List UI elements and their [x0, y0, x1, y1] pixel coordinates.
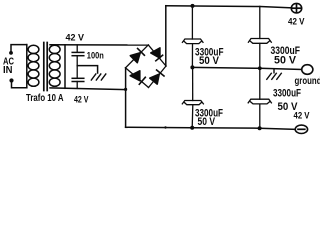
- svg-text:100n: 100n: [87, 51, 104, 62]
- capacitor C1 100n (upper): [72, 45, 84, 78]
- diode D3 (lower-left arm): [130, 71, 145, 85]
- svg-text:Trafo 10 A: Trafo 10 A: [26, 93, 64, 104]
- transformer T1 primary winding: [27, 45, 39, 88]
- node bottom rail / left column: [190, 126, 194, 130]
- ground (near 100n): [91, 74, 106, 80]
- diode D2 (upper-right arm): [151, 48, 163, 61]
- svg-text:42 V: 42 V: [66, 32, 85, 42]
- wire bridge left corner down to negative rail: [125, 68, 127, 128]
- wire AC top terminal to primary: [11, 45, 27, 53]
- terminal -42V: [295, 125, 307, 133]
- svg-text:42 V: 42 V: [74, 94, 89, 104]
- node stray junction dot: [164, 126, 166, 128]
- wire secondary top rail to bridge: [50, 44, 148, 46]
- svg-text:IN: IN: [3, 65, 13, 76]
- svg-text:42 V: 42 V: [294, 111, 310, 121]
- svg-text:42 V: 42 V: [288, 16, 305, 26]
- diode D1 (upper-left arm): [130, 49, 144, 63]
- wire mid rail to ground terminal: [192, 67, 301, 69]
- node mid rail / right column: [258, 66, 262, 70]
- wire bridge plus output up: [165, 6, 167, 66]
- terminal +42V: [291, 3, 301, 13]
- node AC-IN top terminal: [9, 51, 13, 55]
- node top rail / C3 column: [191, 4, 195, 8]
- svg-text:50 V: 50 V: [198, 116, 216, 128]
- bridge rectifier B1 frame: [126, 45, 167, 88]
- transformer T1 secondary winding: [49, 45, 65, 89]
- node mid rail / left column: [190, 65, 194, 69]
- wire top positive rail: [166, 6, 292, 8]
- svg-text:ground: ground: [295, 76, 320, 87]
- node bottom rail / right column: [258, 126, 262, 130]
- svg-text:50 V: 50 V: [274, 55, 297, 67]
- wire secondary bottom rail to bridge lead: [50, 88, 126, 90]
- node AC-IN bottom terminal: [9, 78, 13, 82]
- capacitor C6 3300uF (bottom-right): [248, 68, 271, 128]
- ground (mid rail): [267, 69, 282, 80]
- node junction transformer/negative lead: [124, 88, 127, 91]
- label AC IN: [3, 56, 14, 76]
- wire AC bottom terminal to primary: [12, 81, 27, 88]
- capacitor C5 3300uF (top-right): [248, 6, 271, 68]
- svg-text:50 V: 50 V: [199, 55, 220, 67]
- wire bottom negative rail: [126, 127, 296, 129]
- capacitor C2 100n (lower, unlabelled): [72, 78, 84, 88]
- diode D4 (lower-right arm): [150, 70, 164, 84]
- capacitor C4 3300uF (bottom-left): [182, 67, 203, 127]
- terminal ground: [302, 65, 313, 75]
- transformer T1 core: [44, 43, 47, 91]
- svg-text:3300uF: 3300uF: [273, 88, 301, 100]
- capacitor C3 3300uF (top-left): [182, 6, 203, 67]
- wire 100n midpoint to ground: [77, 66, 97, 73]
